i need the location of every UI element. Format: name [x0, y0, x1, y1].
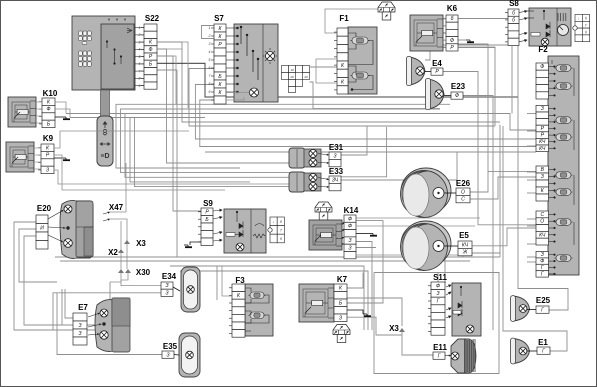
wire	[180, 271, 368, 330]
svg-text:Ф: Ф	[149, 47, 153, 53]
svg-text:З: З	[541, 106, 544, 112]
wire	[527, 261, 536, 263]
wire	[157, 56, 201, 211]
relay K7 guts	[303, 289, 328, 317]
wire	[36, 101, 42, 103]
wire	[70, 117, 205, 119]
wire	[55, 116, 62, 118]
wire	[527, 130, 536, 132]
lamp E5 connector	[458, 241, 472, 256]
relay K9 connector	[38, 144, 54, 174]
wire	[443, 25, 446, 27]
wire	[226, 97, 244, 100]
svg-text:б: б	[451, 16, 454, 22]
relay K14 box	[309, 220, 342, 250]
svg-text:X2: X2	[108, 248, 118, 257]
fuse F1.2	[351, 72, 370, 79]
switch S7 contacts	[226, 26, 259, 93]
wire	[157, 49, 318, 163]
lamp E33 connector	[329, 176, 341, 191]
svg-text:3: 3	[209, 42, 211, 46]
wire	[157, 42, 188, 108]
wire	[55, 109, 70, 118]
wire	[527, 225, 536, 227]
wire	[341, 126, 367, 155]
lamp E33	[289, 172, 321, 192]
wire	[157, 63, 205, 97]
wire	[445, 192, 457, 194]
svg-text:5: 5	[209, 58, 211, 62]
ground	[369, 234, 377, 236]
svg-text:E7: E7	[78, 303, 88, 312]
cluster keypad 1	[79, 31, 92, 45]
wire	[472, 228, 536, 246]
svg-text:КЧ: КЧ	[539, 146, 546, 152]
svg-text:З: З	[46, 168, 49, 174]
headlamp E26	[401, 168, 452, 218]
svg-text:E31: E31	[329, 143, 344, 152]
lamp E35	[179, 333, 200, 377]
wire	[325, 9, 383, 33]
svg-text:X30: X30	[136, 268, 151, 277]
wire	[195, 85, 536, 140]
svg-text:2: 2	[208, 34, 211, 38]
lamp E25 connector	[536, 306, 549, 313]
ground	[62, 117, 70, 119]
svg-text:S9: S9	[203, 199, 213, 208]
wire	[527, 309, 536, 311]
svg-text:E35: E35	[163, 342, 178, 351]
wire	[62, 289, 73, 325]
wire	[173, 287, 180, 291]
wire	[443, 46, 446, 48]
wire	[54, 155, 225, 190]
svg-text:X47: X47	[109, 203, 124, 212]
svg-text:КЧ: КЧ	[539, 139, 546, 145]
fuse F3.1	[249, 292, 266, 299]
svg-text:X3: X3	[136, 239, 146, 248]
svg-text:Ф: Ф	[436, 283, 440, 289]
wire	[347, 317, 402, 335]
wire	[458, 47, 495, 50]
relay K9 box	[6, 142, 34, 172]
wire	[472, 253, 500, 257]
lamp E4 connector	[431, 68, 443, 75]
wire	[53, 293, 161, 330]
wire	[14, 222, 110, 330]
switch S11 block	[452, 283, 481, 336]
svg-text:E5: E5	[459, 231, 469, 240]
svg-text:Ф: Ф	[47, 107, 51, 113]
svg-text:20: 20	[303, 75, 308, 79]
wire	[19, 229, 57, 282]
wire	[527, 179, 536, 181]
fuse box F3 wiring	[245, 288, 269, 331]
svg-text:б: б	[585, 17, 587, 21]
switch S8 gauge	[558, 25, 569, 36]
wire	[34, 161, 41, 163]
wire	[488, 170, 536, 172]
svg-text:З: З	[541, 252, 544, 258]
svg-text:Ф: Ф	[455, 93, 459, 99]
wire	[157, 63, 518, 97]
wire	[110, 273, 121, 282]
wire	[444, 95, 451, 97]
svg-text:K10: K10	[43, 89, 58, 98]
fuse box F3 connector	[229, 284, 245, 337]
wire	[121, 273, 128, 280]
connector grid right of S8	[573, 15, 590, 42]
wire	[120, 221, 122, 249]
wire	[36, 122, 42, 124]
connector S22	[138, 24, 157, 89]
lamp E1	[511, 338, 530, 364]
svg-text:6: 6	[209, 66, 211, 70]
wire	[342, 229, 344, 231]
wire	[356, 255, 463, 257]
connector X3 bottom	[399, 328, 405, 332]
wire	[121, 280, 161, 286]
fuse box F2 wiring	[549, 60, 575, 275]
lamp E7 connector	[73, 313, 87, 345]
svg-text:З: З	[78, 331, 81, 337]
wire	[527, 350, 537, 352]
wire	[318, 162, 329, 164]
wire	[356, 233, 369, 235]
svg-text:≡D: ≡D	[100, 153, 109, 160]
wire	[527, 256, 536, 258]
wire	[135, 27, 144, 29]
wire	[200, 100, 536, 147]
lamp E7	[88, 298, 130, 352]
lamp E1 connector	[537, 347, 550, 354]
wire	[374, 273, 499, 374]
wire	[216, 266, 218, 300]
wire	[356, 242, 372, 331]
cluster switch symbols	[106, 28, 132, 64]
switch S9 contacts	[213, 209, 265, 241]
wire	[157, 48, 182, 50]
fuse box F2 connector	[536, 63, 549, 99]
wire	[425, 71, 431, 73]
switch S11 contacts	[446, 285, 462, 318]
wire	[443, 72, 536, 225]
wire	[342, 243, 344, 245]
headlamp E5	[401, 221, 452, 271]
svg-text:б: б	[280, 237, 282, 241]
connector X3	[124, 240, 130, 244]
svg-text:б: б	[512, 18, 515, 24]
switch S8 block	[529, 8, 571, 46]
svg-text:K7: K7	[337, 275, 348, 284]
svg-text:И: И	[40, 226, 44, 232]
fuse F3.2	[249, 312, 266, 319]
wire	[222, 266, 232, 296]
wire	[499, 125, 501, 253]
switch S7 block	[234, 24, 278, 102]
wire	[60, 260, 470, 262]
wire	[130, 117, 250, 181]
ground	[62, 158, 70, 160]
svg-text:КЧ: КЧ	[539, 232, 546, 238]
switch S9 lamp	[236, 243, 244, 251]
lamp E4	[407, 57, 426, 86]
ground	[466, 40, 474, 42]
svg-text:E33: E33	[329, 167, 344, 176]
svg-text:8: 8	[209, 82, 211, 86]
wire	[402, 331, 433, 355]
relay K14 guts	[313, 225, 336, 245]
wire	[470, 177, 536, 199]
svg-text:E20: E20	[37, 204, 52, 213]
ground	[184, 245, 192, 247]
svg-text:F2: F2	[538, 45, 548, 54]
svg-text:S8: S8	[509, 0, 519, 8]
lamp E34 connector	[161, 282, 173, 296]
relay K7 box	[299, 284, 334, 322]
wire	[356, 247, 376, 249]
wire	[342, 237, 345, 239]
wire	[445, 354, 451, 356]
switch S7 connector	[208, 24, 226, 104]
switch S9 connector	[198, 208, 213, 246]
switch S8 connector	[505, 9, 519, 46]
wire	[347, 298, 402, 326]
wire	[57, 293, 162, 355]
svg-text:КЧ: КЧ	[462, 242, 469, 248]
wire	[511, 46, 513, 114]
relay K10 connector	[39, 98, 55, 128]
wire	[527, 243, 536, 245]
connector X below K7	[333, 325, 350, 343]
relay K6 connector	[443, 15, 458, 51]
wire	[316, 59, 337, 83]
svg-text:З: З	[541, 174, 544, 180]
svg-text:↓: ↓	[578, 17, 580, 21]
svg-text:7: 7	[209, 74, 211, 78]
wire	[176, 70, 178, 257]
svg-text:З: З	[436, 291, 439, 297]
relay K10 box	[8, 97, 36, 127]
svg-text:С: С	[461, 197, 465, 203]
lamp E26 connector	[456, 188, 470, 203]
svg-text:З: З	[165, 283, 168, 289]
wire	[310, 82, 441, 109]
wire	[54, 131, 189, 148]
wire	[202, 26, 215, 39]
wire	[527, 192, 536, 194]
instrument cluster block	[72, 16, 135, 90]
wire	[527, 218, 536, 220]
wire	[54, 157, 62, 159]
wire	[318, 178, 329, 181]
svg-text:Ф: Ф	[450, 38, 454, 44]
wire	[66, 114, 536, 131]
wire	[503, 126, 567, 351]
svg-text:19: 19	[290, 68, 294, 72]
svg-text:Ж: Ж	[462, 250, 468, 256]
svg-text:Ф: Ф	[540, 259, 544, 265]
connector X30	[118, 269, 124, 273]
svg-text:4: 4	[209, 50, 211, 54]
wire	[135, 117, 319, 186]
svg-text:З: З	[165, 290, 168, 296]
fuse F1.1	[351, 37, 370, 44]
lamp E23 connector	[451, 92, 463, 99]
cluster keypad 2	[79, 51, 92, 66]
lamp E34	[181, 267, 200, 312]
switch S7 bottom lamp	[250, 88, 259, 97]
switch S8 lamp	[541, 38, 549, 46]
wire	[110, 219, 127, 243]
fuse box F3 block	[245, 284, 273, 336]
svg-text:20: 20	[289, 75, 294, 79]
ground	[363, 314, 371, 316]
svg-text:Ф: Ф	[348, 224, 352, 230]
wire	[170, 266, 364, 330]
wire	[527, 151, 536, 153]
svg-text:E4: E4	[432, 59, 442, 68]
svg-text:S11: S11	[433, 273, 447, 282]
wire	[310, 66, 338, 68]
switch S7 lamp	[266, 52, 275, 61]
wire	[458, 39, 466, 41]
wire	[341, 152, 457, 180]
wire	[318, 186, 329, 188]
wire	[34, 168, 41, 170]
wire	[341, 127, 387, 177]
svg-text:З: З	[166, 352, 169, 358]
relay K10 guts	[12, 102, 30, 122]
svg-text:б: б	[280, 220, 282, 224]
svg-text:F1: F1	[339, 14, 349, 23]
wire	[116, 104, 450, 168]
wire	[458, 48, 495, 127]
lamp E11 connector	[433, 352, 445, 359]
fuse box F1 wiring	[348, 33, 373, 91]
wire	[54, 170, 305, 184]
wire	[443, 18, 446, 20]
lamp E20	[48, 200, 93, 258]
svg-text:S7: S7	[214, 14, 224, 23]
svg-text:Ф: Ф	[348, 216, 352, 222]
wire	[437, 273, 439, 283]
wire	[458, 18, 508, 20]
wire	[527, 171, 536, 173]
fuse box F2 block	[548, 56, 579, 275]
svg-text:K9: K9	[43, 134, 54, 143]
steering column stalk	[97, 90, 113, 166]
wire	[347, 310, 363, 314]
relay K14 connector	[344, 215, 356, 259]
wire	[110, 163, 126, 212]
svg-text:З: З	[339, 315, 342, 321]
svg-text:б: б	[512, 10, 515, 16]
wire	[65, 289, 73, 318]
switch S11 connector	[428, 282, 445, 335]
wire	[205, 151, 536, 153]
wire	[430, 44, 508, 46]
svg-text:X3: X3	[389, 324, 399, 333]
connector X47	[103, 212, 110, 222]
svg-text:б: б	[585, 30, 587, 34]
wire	[157, 42, 500, 122]
connector grid right of S9	[268, 217, 285, 243]
wire	[36, 108, 42, 110]
wire	[443, 39, 446, 41]
lamp E31 connector	[329, 152, 341, 167]
svg-text:↓: ↓	[273, 220, 275, 224]
svg-text:E1: E1	[538, 338, 548, 347]
svg-text:Ф: Ф	[540, 64, 544, 70]
lamp E20 connector	[36, 215, 48, 249]
wire	[125, 114, 318, 178]
svg-text:E23: E23	[451, 82, 466, 91]
wire	[347, 273, 363, 289]
connector X near K14	[315, 202, 332, 220]
svg-text:З: З	[333, 153, 336, 159]
wire	[126, 244, 128, 269]
wire	[174, 354, 179, 357]
wire	[342, 222, 344, 225]
svg-text:E25: E25	[536, 296, 551, 305]
wire	[425, 45, 430, 60]
wire	[356, 225, 475, 227]
svg-text:З: З	[348, 238, 351, 244]
wire	[445, 257, 446, 282]
svg-text:З: З	[78, 323, 81, 329]
wire	[527, 145, 536, 147]
wire	[34, 147, 41, 149]
svg-text:K14: K14	[344, 206, 359, 215]
wire	[463, 96, 493, 331]
svg-text:K6: K6	[447, 4, 458, 13]
relay K6 guts	[414, 20, 437, 46]
wire	[190, 242, 201, 245]
wire	[458, 44, 488, 192]
svg-text:7: 7	[280, 229, 282, 233]
svg-text:9: 9	[209, 90, 211, 94]
svg-text:О: О	[540, 219, 544, 225]
switch S8 contacts	[519, 10, 550, 42]
fuse box F1 block	[348, 27, 377, 94]
relay K9 guts	[10, 147, 28, 167]
switch S11 lamp	[466, 325, 474, 333]
lamp E23	[426, 79, 445, 110]
lamp E11	[451, 339, 476, 373]
wire	[189, 69, 495, 127]
lamp E31	[289, 148, 321, 168]
svg-text:E34: E34	[162, 272, 177, 281]
wire	[55, 102, 66, 114]
wire	[121, 109, 441, 173]
wire	[24, 236, 95, 325]
wire	[34, 154, 41, 156]
wire	[356, 217, 480, 219]
wire	[55, 256, 500, 258]
svg-text:E11: E11	[433, 343, 447, 352]
lamp E25	[511, 296, 530, 322]
wire	[157, 56, 176, 104]
wire	[445, 245, 459, 247]
wire	[226, 92, 250, 94]
wire	[347, 221, 383, 303]
connector pad near S7	[282, 66, 310, 93]
svg-text:1: 1	[209, 26, 211, 30]
connector X2	[118, 249, 124, 253]
relay K6 box	[410, 15, 443, 51]
wire	[527, 113, 536, 115]
